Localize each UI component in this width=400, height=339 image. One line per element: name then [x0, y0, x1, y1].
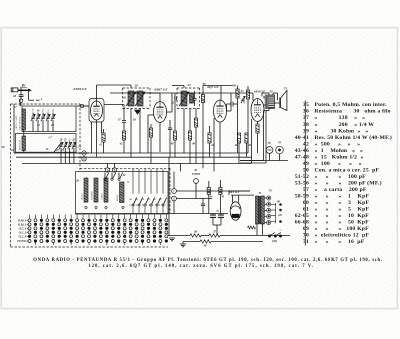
junction G2 [82, 157, 86, 161]
wire grid line y104.5 [104, 104, 124, 106]
resistor 57 [241, 86, 250, 153]
transformer bottom leads [257, 224, 263, 236]
rotor circle B [112, 163, 116, 172]
capacitor 53 [168, 120, 172, 157]
svg-text:35: 35 [303, 102, 309, 108]
IFT1 primary coil [128, 91, 134, 106]
capacitor 23 [175, 97, 177, 101]
svg-text:CORTE: CORTE [102, 193, 104, 200]
svg-text:D: D [173, 198, 175, 201]
svg-text:45: 45 [220, 196, 224, 199]
svg-text:Resistenza 30 ohm a fi: Resistenza 30 ohm a filo [315, 109, 391, 115]
resistor 38 [200, 240, 211, 243]
svg-text:PADDING: PADDING [91, 191, 94, 200]
tube V5 6X5 [230, 202, 241, 220]
switch contact top x105 [104, 173, 109, 181]
tube V4 leads [252, 93, 267, 163]
bus bottom switch [76, 213, 229, 215]
wire 59 drop [202, 93, 204, 95]
contact dot x86 [85, 206, 87, 208]
bus AVC y152 [14, 152, 248, 154]
junction circle top [80, 104, 83, 107]
svg-text:73: 73 [284, 86, 288, 90]
transformer tap connectors [265, 196, 271, 225]
rotor axis dashed [129, 204, 166, 206]
switch contact top x119 [118, 173, 123, 181]
resistor 43 [149, 124, 152, 163]
svg-text:6SK7 GT: 6SK7 GT [155, 88, 169, 92]
junction G1 [82, 151, 86, 155]
svg-text:42: 42 [119, 143, 123, 146]
resistor 42 [119, 105, 126, 154]
svg-text:OSCILL: OSCILL [82, 192, 84, 200]
resistor 46 [207, 181, 213, 214]
IFT2 secondary coil [190, 93, 194, 103]
svg-text:47-48: 47-48 [295, 154, 309, 160]
svg-text:MEDIE: MEDIE [117, 194, 119, 201]
svg-text:» a carta 200 pF: » a carta 200 pF [315, 187, 367, 193]
svg-text:» 100 » » »: » 100 » » » [315, 161, 362, 167]
switch contact 11 [153, 169, 160, 214]
rotor leads [173, 172, 175, 214]
IFT2 dashed can [177, 87, 200, 89]
dashed shield box tuner [11, 104, 169, 247]
trimmer 7' [31, 110, 35, 132]
svg-text:» 30 Kohm » »: » 30 Kohm » » [315, 128, 369, 134]
resistor 41 [98, 129, 105, 153]
cap bus [213, 225, 221, 236]
svg-text:62-65: 62-65 [295, 213, 309, 219]
svg-text:48: 48 [170, 143, 174, 146]
svg-text:26': 26' [71, 139, 76, 142]
svg-text:» » » 100 KpF: » » » 100 KpF [315, 226, 370, 232]
svg-text:(35): (35) [272, 239, 277, 243]
speaker 73 [280, 91, 287, 111]
svg-text:69: 69 [303, 226, 309, 232]
svg-text:31: 31 [258, 191, 262, 195]
svg-text:» » » 100 pF: » » » 100 pF [315, 174, 367, 180]
coupling capacitor 60 [231, 102, 233, 107]
svg-text:IV: IV [21, 84, 26, 88]
IFT2 leads [172, 86, 196, 154]
svg-text:» elettrolitico 12 µF: » elettrolitico 12 µF [315, 233, 370, 239]
svg-text:×7: ×7 [48, 136, 52, 140]
trimmer 8 [51, 110, 55, 132]
svg-text:40-41: 40-41 [295, 135, 309, 141]
IFT1 tuning arrows [126, 92, 145, 106]
trimmer 1 [46, 110, 50, 132]
parts table rule [304, 101, 306, 246]
resistor 49 [188, 131, 195, 163]
wire feeds [169, 153, 214, 236]
svg-text:61: 61 [303, 207, 309, 213]
svg-text:» 200 » 1/4 W: » 200 » 1/4 W [315, 122, 375, 128]
contact dot x106 [105, 206, 107, 208]
svg-text:49: 49 [191, 143, 195, 146]
svg-text:» » » 5 KpF: » » » 5 KpF [315, 207, 370, 213]
svg-text:Res. 50 Kohm 1/4 W (40-MF.): Res. 50 Kohm 1/4 W (40-MF.) [315, 134, 393, 141]
jack FONO [194, 179, 199, 199]
resistor 30 [234, 133, 241, 163]
svg-text:» » » 16 µF: » » » 16 µF [315, 239, 365, 245]
resistor 48 [170, 93, 177, 157]
tube V5 leads [229, 191, 254, 203]
resistor 58 [233, 85, 239, 154]
coil L1 antenna [22, 109, 26, 130]
osc coil 1 [84, 178, 88, 202]
svg-text:36: 36 [193, 230, 197, 233]
rotor circle D [172, 196, 212, 201]
bus y158.5 [16, 156, 252, 158]
mains switch 35 [268, 233, 281, 237]
dashed shield box switch [80, 168, 170, 213]
trimmer 29 [59, 139, 63, 164]
svg-text:53-56: 53-56 [295, 180, 309, 186]
svg-text:» » » 1 KpF: » » » 1 KpF [315, 193, 370, 199]
svg-text:» » » 3 KpF: » » » 3 KpF [315, 200, 370, 206]
trimmer 2 [68, 139, 72, 164]
svg-text:60: 60 [303, 200, 309, 206]
svg-text:» 500 » » »: » 500 » » » [315, 141, 361, 147]
svg-text:23: 23 [170, 102, 174, 105]
antenna arrow [18, 89, 32, 92]
coil L2 [22, 136, 26, 151]
svg-text:41: 41 [98, 144, 102, 147]
svg-text:Poten. 0,5 Mohm. con inter.: Poten. 0,5 Mohm. con inter. [315, 102, 388, 108]
IFT1 core arrow [134, 110, 141, 115]
tube V3 leads [214, 86, 231, 158]
svg-text:20': 20' [158, 198, 163, 201]
IFT1 secondary coil [137, 91, 143, 106]
svg-text:57: 57 [303, 187, 309, 193]
svg-text:» 130 » »: » 130 » » [315, 115, 366, 121]
svg-text:» 1 Mohm » »: » 1 Mohm » » [315, 148, 364, 154]
svg-text:C: C [173, 190, 175, 193]
tuner mid box [16, 134, 77, 153]
trimmer 2' [41, 110, 45, 132]
antenna label IV [20, 84, 27, 88]
svg-text:70: 70 [303, 233, 309, 239]
IFT1 dashed can [123, 87, 151, 89]
jack 78 [266, 142, 273, 161]
svg-text:MODULAZ: MODULAZ [19, 139, 22, 150]
svg-text:» » » 50 KpF: » » » 50 KpF [315, 220, 370, 226]
capacitor 17p [118, 119, 126, 123]
parts table [295, 102, 392, 245]
IFT2 capacitor [192, 91, 196, 106]
svg-text:120, cat. 2,6. 6Q7 GT pl. 140,: 120, cat. 2,6. 6Q7 GT pl. 140, cat. zero… [88, 264, 314, 269]
resistor 42b [208, 126, 215, 157]
svg-text:39: 39 [303, 128, 309, 134]
switch contact 16 [135, 169, 142, 214]
power transformer 31 [256, 196, 259, 224]
svg-text:24: 24 [186, 83, 191, 87]
svg-text:FONO: FONO [192, 172, 200, 176]
switch contact 10 [129, 169, 136, 214]
osc coil 2 [94, 178, 98, 202]
svg-text:42: 42 [303, 141, 309, 147]
capacitor 66 [201, 199, 205, 214]
tube V1 shield box [89, 99, 104, 123]
trimmer 77 [241, 96, 246, 104]
resistor 43b [219, 180, 225, 214]
tube V3 6Q7 [214, 100, 227, 122]
switch contact 15 [147, 169, 154, 214]
bus fil [183, 242, 263, 245]
svg-text:66-68: 66-68 [295, 220, 309, 226]
rotor circle A [105, 163, 109, 172]
svg-text:51-52: 51-52 [295, 174, 309, 180]
matrix feed ticks [30, 215, 167, 246]
svg-text:O.C.3: O.C.3 [19, 235, 27, 239]
capacitor ant series [19, 95, 24, 97]
svg-text:2': 2' [41, 110, 44, 113]
svg-text:ANT. MEDIE: ANT. MEDIE [19, 116, 22, 130]
svg-text:38: 38 [303, 122, 309, 128]
svg-text:6TE6 GT: 6TE6 GT [73, 87, 87, 91]
resistor 37 [209, 234, 220, 237]
trimmer 26' [71, 139, 76, 164]
tube V1 leads [84, 88, 102, 157]
svg-text:49: 49 [303, 161, 309, 167]
tube V4 6V6 [251, 99, 264, 122]
svg-text:38: 38 [203, 245, 207, 248]
osc coil 4 [120, 182, 125, 203]
tube V2 6SK7 [154, 102, 167, 123]
ground fil [180, 244, 186, 247]
tube V2 leads [148, 93, 172, 153]
svg-text:50: 50 [303, 167, 309, 173]
switch lever diagonal [54, 143, 61, 152]
svg-text:G: G [83, 152, 85, 155]
svg-text:17': 17' [118, 119, 122, 122]
resistor 39 cathode [256, 124, 259, 153]
antenna wire vertical [20, 88, 22, 99]
bus y165.5 [22, 162, 252, 164]
svg-text:» » » 200 pF (MF.): » » » 200 pF (MF.) [315, 179, 382, 186]
svg-text:43-46: 43-46 [295, 148, 309, 154]
switch contact 13 [141, 169, 148, 214]
switch contact top x112 [111, 173, 116, 181]
IFT2 tuning arrow [179, 92, 189, 106]
contact dot x96 [95, 206, 97, 208]
svg-text:FONO: FONO [17, 239, 27, 243]
transformer leads [262, 93, 280, 103]
wire aux L [29, 92, 43, 101]
resistor 61 [245, 133, 252, 157]
svg-text:36: 36 [303, 109, 309, 115]
contact dot x123 [122, 206, 124, 208]
wire bus 93 [110, 92, 253, 94]
svg-text:37: 37 [212, 230, 216, 233]
svg-text:7': 7' [32, 110, 34, 113]
jack bus [240, 160, 288, 162]
resistor 59 [201, 95, 204, 103]
svg-text:» » » 10 KpF: » » » 10 KpF [315, 213, 370, 219]
svg-text:ONDA RADIO - PENTAUNDA R 55/1: ONDA RADIO - PENTAUNDA R 55/1 - Gruppo A… [33, 258, 382, 263]
band switch contact matrix [17, 219, 168, 244]
antenna terminal block 18 [11, 88, 18, 92]
switch contact 20' [158, 169, 167, 214]
tuner top box [22, 106, 76, 132]
filament zigzag [248, 226, 256, 229]
resistor 36 [190, 234, 201, 237]
wire box to V1 [76, 106, 89, 153]
rotor circle C [172, 189, 250, 194]
resistor 44 [194, 112, 197, 163]
output transformer 33 [265, 95, 274, 110]
jack 79 [276, 142, 284, 161]
trimmer 19 [36, 110, 40, 132]
osc coil 3 [104, 178, 108, 202]
svg-text:71: 71 [303, 239, 309, 245]
svg-text:58-59: 58-59 [295, 193, 309, 199]
wire top bus V3 [203, 86, 233, 94]
wire antenna drop [14, 99, 24, 153]
electrolytic 71 [218, 215, 224, 217]
svg-text:30: 30 [1, 145, 6, 149]
svg-text:O: O [83, 158, 85, 161]
svg-text:Con. a mica o cer. 25 pF: Con. a mica o cer. 25 pF [315, 167, 380, 173]
svg-text:~: ~ [280, 228, 282, 232]
IFT2 primary coil [181, 91, 187, 106]
svg-text:18: 18 [13, 94, 17, 98]
wire into tuner [20, 102, 22, 106]
svg-text:» 15 Kohm 1/2 »: » 15 Kohm 1/2 » [315, 154, 364, 160]
electrolytic 70 [210, 215, 216, 217]
svg-text:11: 11 [153, 198, 155, 201]
tap output line [271, 203, 282, 223]
ground bottom left [169, 238, 175, 241]
svg-text:ONDE CORTE: ONDE CORTE [16, 114, 18, 130]
bus bottom main [168, 235, 290, 237]
oscillator box [76, 172, 169, 215]
connector circle [19, 99, 22, 102]
svg-text:20: 20 [133, 84, 138, 88]
speaker field wires [240, 109, 269, 164]
trimmer 25 [63, 139, 67, 164]
svg-text:37: 37 [303, 115, 309, 121]
tube V1 6TE6 [91, 101, 103, 120]
IFT1 leads [97, 85, 161, 157]
